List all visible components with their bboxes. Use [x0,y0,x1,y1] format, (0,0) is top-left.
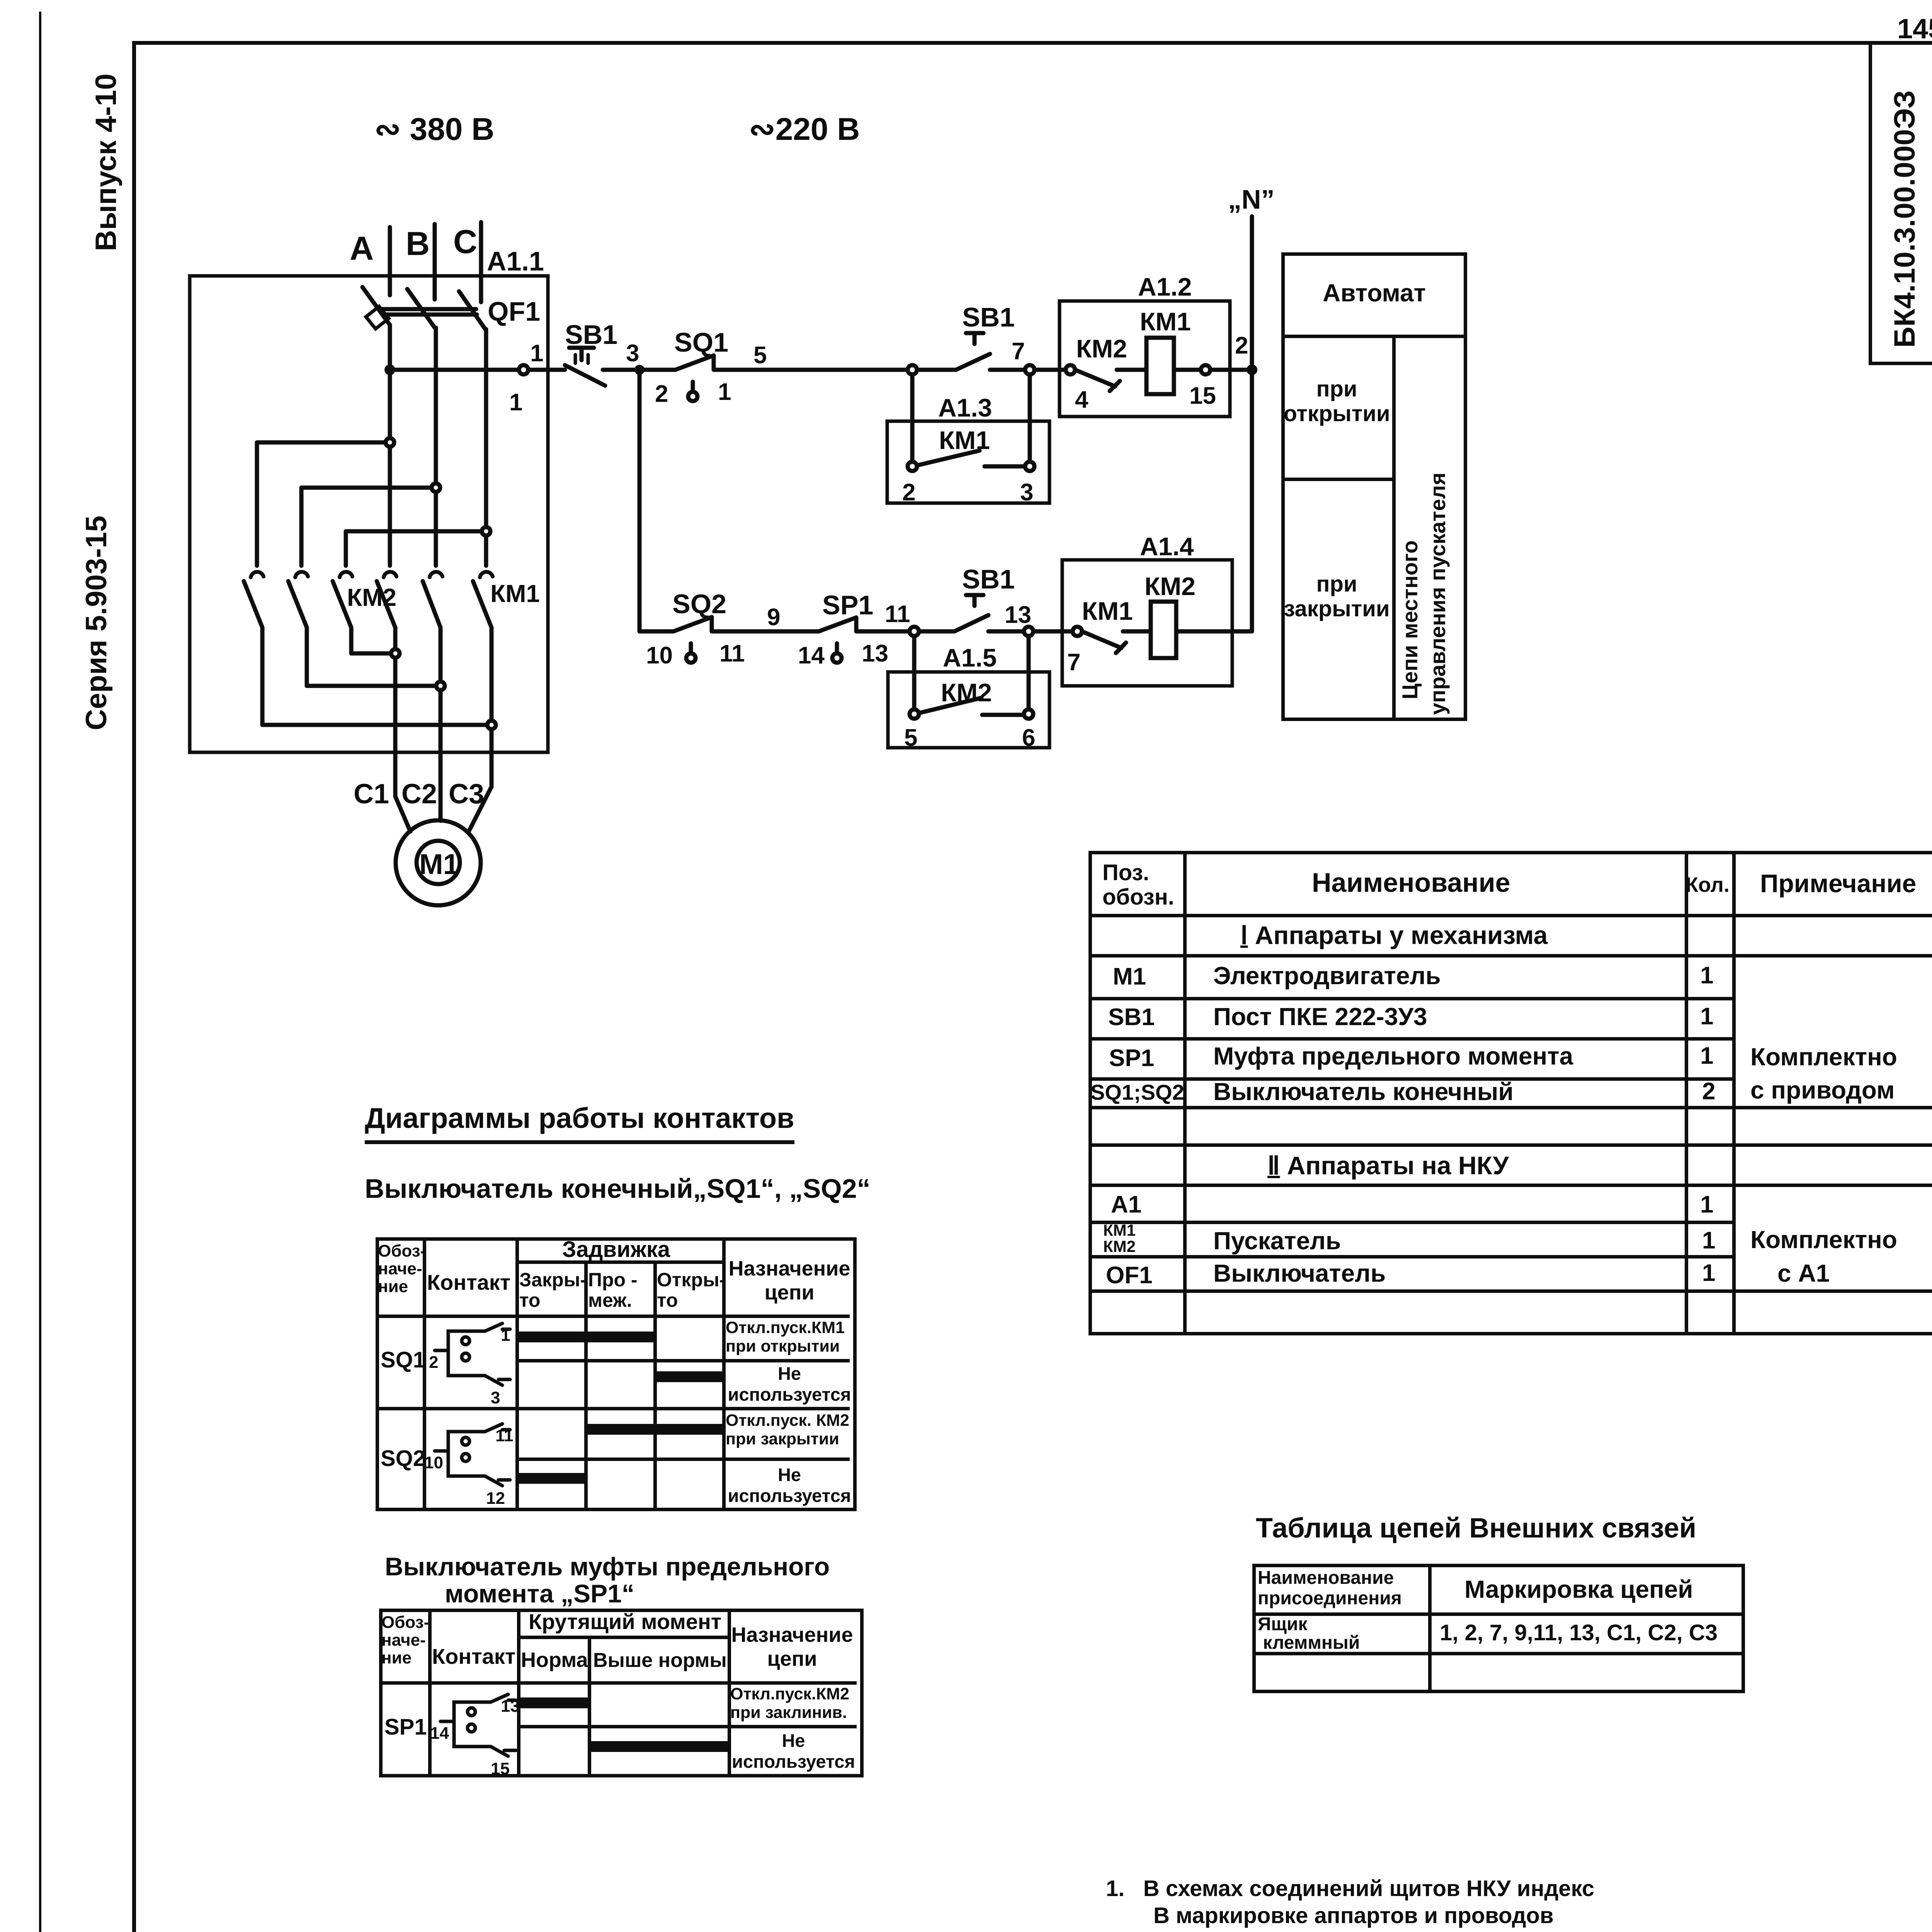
wire phase A lower [388,325,392,566]
left margin rotated label Выпуск 4-10 [90,73,122,251]
node N junction [1247,364,1257,375]
SQ1 diagram contact symbol [435,1323,510,1385]
pushbutton SB1 NO contact rung1 [956,333,990,370]
node b3 junction [482,527,490,536]
node 5 aux [910,709,919,719]
pushbutton SB1 NO contact rung2 [954,595,988,631]
bars SQ2 [584,1424,722,1435]
pin 11 label [719,640,745,667]
pushbutton SB1 NC contact [565,348,605,386]
node 6 aux [1024,709,1033,719]
wire phase C lower [484,329,488,566]
wire drop rung2 [638,370,642,631]
pin 9 label [767,604,780,631]
contactor KM2 main contact 2 [288,572,308,686]
wire 5 [714,368,908,372]
node 3 [634,365,645,375]
node 15 terminal [1201,365,1210,374]
pin 13 label [862,640,888,667]
label SQ1 [674,327,728,357]
node 7 [1025,365,1034,374]
wire phase B lower [434,328,438,566]
contactor KM1 NC aux contact rung2 [1082,631,1126,653]
wire [1123,629,1151,634]
PAGE FURNITURE [39,12,41,1932]
wire 11 [856,629,910,634]
pin 7 label rung2 [1067,649,1080,676]
label A1.2 [1138,272,1192,301]
wire motor feed C3 [469,787,492,832]
wire [917,368,956,372]
pin 6 label aux [1022,724,1035,751]
node b2 junction [432,483,440,492]
label SB1 [565,320,617,350]
contactor KM1 main contact 2 [423,572,442,821]
coil KM1 [1146,338,1174,394]
wire drop to A1.5 left [912,636,917,709]
wire motor feed C1 [395,796,410,832]
diagram table SP title [385,1553,830,1580]
wire bottom bridge bb1 [351,651,395,656]
wire neutral N [1250,216,1254,631]
pin 2 label N side [1235,332,1248,359]
SP1 diagram contact symbol [440,1694,516,1756]
pin 7 label [1012,338,1025,365]
label A1.5 [943,643,997,672]
pin 10 label [646,642,673,669]
wire node3 segment [603,368,639,372]
node C phase label [453,223,477,260]
node 1 [519,365,528,374]
pin 1 label above [530,340,543,367]
enclosure A1.5 [888,672,1049,748]
wire [1210,368,1252,372]
wire [919,629,954,634]
wire to N [1176,629,1252,634]
pin 1 label [718,379,731,405]
external links table [1252,1564,1745,1693]
contactor KM2 NC aux contact [1075,370,1120,391]
label KM1 aux NC [1082,597,1133,625]
label C2 [401,779,437,810]
pin 13 node label [1005,602,1031,628]
right notes [1106,1877,1594,1901]
limit switch SQ1 [675,355,714,401]
pin 2 label [655,381,668,407]
node A phase label [350,230,374,267]
external links table title [1256,1514,1696,1543]
node 13 rung2 [1024,627,1033,636]
wire [528,368,565,372]
pin 2 label aux [902,479,915,506]
label M1 [419,848,459,880]
contactor KM2 NO aux contact [920,698,1024,715]
pin 14 label [798,642,825,669]
pin 3 label aux [1020,479,1033,506]
label KM1 main [490,580,540,607]
pin 3 label [626,340,639,367]
node 4 terminal [1066,365,1075,374]
pin 11 node label [885,601,910,628]
label A1.1 [487,246,544,276]
SQ2 pins 11,10,12 [424,1426,514,1508]
wire phase B drop [433,224,437,299]
contactor KM1 main contact 3 [473,572,493,787]
node 3 aux [1025,462,1034,471]
wire [990,368,1025,372]
wire drop to A1.3 right [1028,374,1032,462]
SQ2 diagram contact symbol [435,1424,510,1486]
node bb1 junction [391,649,400,658]
bars SQ1 [515,1332,653,1342]
diagram table SP [379,1609,864,1777]
label A1.3 [938,393,992,422]
coil KM2 [1151,602,1176,658]
wire phase A drop [388,227,392,295]
wire phase C drop [479,222,483,302]
wire bottom bridge bb3 [262,723,492,727]
enclosure A1.1 [190,276,548,752]
pin 1 label below [509,389,522,416]
torque switch SP1 [819,617,856,663]
wire [1174,368,1201,372]
node bb3 junction [487,721,496,729]
label KM2 coil [1145,572,1196,600]
node junction phase A / bus [384,364,395,375]
label SQ2 [672,589,726,619]
contactor KM1 NO aux contact [918,451,1025,466]
wire bridge b2 [301,488,436,566]
node b1 junction [386,438,394,447]
label A1.4 [1140,532,1194,561]
label SP1 [822,590,873,620]
label ~220 V [749,112,860,147]
top-right stamp box [1869,41,1932,365]
label SB1 rung1 [962,302,1015,332]
label KM2 main [347,583,396,611]
node bb2 junction [436,682,445,690]
label SB1 rung2 [962,564,1015,594]
wire [639,368,675,372]
node 2 aux [908,462,917,471]
node N label [1228,184,1275,214]
wire 9 [712,629,819,634]
motor M1 [396,820,481,905]
wire [1033,629,1073,634]
pin 4 label [1075,386,1088,413]
pin 5 label [753,342,767,369]
left margin rotated label Серия 5.903-15 [80,515,113,730]
pin 5 label aux [904,724,917,751]
node B phase label [406,225,430,262]
rotated stamp text [1888,90,1921,348]
limit switch SQ2 [673,617,712,663]
label C3 [449,779,484,810]
wire [988,629,1024,634]
contact diagrams title [365,1103,794,1144]
label KM2 aux NO [941,678,992,707]
node 11a [908,365,917,374]
SQ1 pins 1,2,3 [429,1326,510,1407]
circuit breaker QF1 [362,287,485,329]
diagram table SQ [376,1237,857,1511]
legend table Avtomat [1281,252,1467,721]
wire bridge b1 [257,442,390,566]
contactor KM2 main contact 1 [244,572,264,725]
wire rung2 start [639,629,673,634]
table Avtomat rotated text [1398,473,1450,715]
label KM1 aux NO [939,426,990,454]
wire [1034,368,1066,372]
SP1 pins 13,14,15 [430,1697,520,1778]
contactor KM1 main contact 1 [377,572,396,796]
parts list table [1088,851,1932,1335]
label C1 [354,779,389,810]
label KM1 coil [1140,307,1191,336]
node 11 rung2 [910,627,919,636]
enclosure A1.2 [1060,301,1230,417]
pin 15 label [1189,383,1216,409]
wire drop to A1.3 left [910,374,915,462]
node 7 terminal rung2 [1073,627,1082,636]
enclosure A1.4 [1062,560,1232,686]
label QF1 [488,296,540,327]
wire [1117,368,1146,372]
label KM2 aux [1076,334,1127,363]
wire drop to A1.5 right [1027,636,1031,709]
wire bridge b3 [346,531,486,566]
contactor KM2 main contact 3 [333,572,352,653]
label ~380 V [374,112,494,147]
wire bottom bridge bb2 [307,684,440,688]
wire control bus rung1 [390,368,519,372]
enclosure A1.3 [887,421,1049,503]
